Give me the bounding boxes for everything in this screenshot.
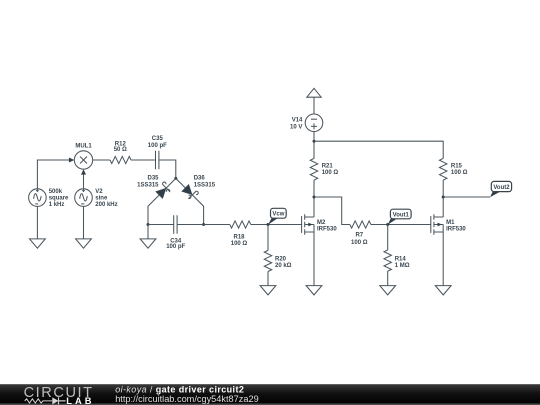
voltage source V14 [290, 114, 323, 132]
multiplier MUL1 [74, 144, 92, 170]
voltage source V2 sine [75, 189, 118, 208]
transistor M1 IRF530 [431, 214, 467, 235]
flag Vcw [268, 208, 286, 224]
node diode right [202, 223, 205, 226]
voltage source V1 500k square [29, 189, 69, 208]
resistor R18 [230, 221, 251, 247]
svg-text:R14: R14 [395, 256, 407, 262]
wire V2 to ground [83, 206, 85, 239]
wire R15 to M1 drain [442, 180, 444, 217]
svg-text:M1: M1 [446, 220, 455, 226]
svg-text:D36: D36 [194, 176, 206, 182]
ground [76, 239, 92, 248]
svg-text:1 MΩ: 1 MΩ [395, 263, 410, 269]
node V14 [313, 140, 316, 143]
svg-text:1SS315: 1SS315 [194, 183, 216, 189]
svg-text:1 kHz: 1 kHz [49, 202, 65, 208]
svg-text:50 Ω: 50 Ω [114, 147, 127, 153]
svg-text:oi-koya / gate driver circuit2: oi-koya / gate driver circuit2 [115, 385, 244, 395]
svg-text:square: square [49, 195, 69, 201]
wire C35 to apex node [159, 160, 176, 178]
wire drain node to R7 [314, 197, 350, 225]
wire node to Vout2 [443, 196, 490, 198]
flag Vout2 [490, 181, 512, 197]
svg-text:C35: C35 [152, 136, 164, 142]
node M2 drain [313, 196, 316, 199]
wire left node to C34 [148, 224, 174, 226]
node Vout1 [386, 223, 389, 226]
svg-text:100 Ω: 100 Ω [231, 241, 248, 247]
power VCC [307, 88, 321, 97]
wire R18 to M2 gate [251, 224, 302, 226]
wire R7 to M1 gate [371, 224, 431, 226]
svg-text:R7: R7 [355, 233, 363, 239]
svg-text:LAB: LAB [66, 396, 94, 405]
node M1 drain [442, 196, 445, 199]
resistor R15 [440, 158, 468, 180]
flag Vout1 [388, 209, 411, 225]
svg-text:Vcw: Vcw [272, 212, 284, 218]
ground [306, 286, 322, 295]
svg-text:R21: R21 [322, 163, 334, 169]
svg-text:http://circuitlab.com/cgy54kt8: http://circuitlab.com/cgy54kt87za29 [115, 394, 259, 404]
transistor M2 IRF530 [302, 214, 338, 235]
node diode left [147, 223, 150, 226]
wire M2 source to ground [313, 232, 315, 286]
svg-text:R20: R20 [275, 256, 287, 262]
svg-text:M2: M2 [317, 220, 326, 226]
svg-text:sine: sine [95, 195, 108, 201]
svg-text:V2: V2 [95, 189, 103, 195]
capacitor C35 [148, 136, 167, 169]
wire C34 to right node to R18 [177, 224, 230, 226]
svg-text:100 pF: 100 pF [166, 244, 185, 250]
wire M1 source to ground [442, 232, 444, 286]
svg-text:R15: R15 [451, 163, 463, 169]
svg-text:1SS315: 1SS315 [137, 182, 159, 188]
diode D36 1SS315 [176, 176, 216, 225]
ground [140, 239, 156, 248]
svg-text:IRF530: IRF530 [446, 227, 466, 233]
ground [435, 286, 451, 295]
ground [260, 286, 276, 295]
wire V2 to MUL1 [81, 169, 86, 189]
svg-text:100 pF: 100 pF [148, 143, 167, 149]
wire R20 to ground [267, 272, 269, 286]
wire V14 to power [313, 97, 315, 114]
footer logo CIRCUIT LAB [24, 385, 95, 405]
wire Vout1 node to R14 [387, 225, 389, 251]
svg-text:D35: D35 [147, 175, 159, 181]
svg-text:100 Ω: 100 Ω [351, 240, 368, 246]
wire left node to ground [147, 225, 149, 239]
resistor R14 [384, 250, 410, 271]
wire V1 to MUL1 [37, 158, 74, 189]
resistor R20 [264, 250, 291, 271]
svg-text:200 kHz: 200 kHz [95, 202, 117, 208]
svg-text:20 kΩ: 20 kΩ [275, 263, 292, 269]
svg-text:MUL1: MUL1 [75, 144, 92, 150]
ground [380, 286, 396, 295]
footer title text [115, 385, 259, 405]
svg-text:V14: V14 [292, 118, 303, 124]
svg-text:100 Ω: 100 Ω [322, 170, 339, 176]
wire R12 to C35 [131, 159, 156, 161]
resistor R21 [310, 158, 338, 180]
ground [30, 239, 46, 248]
wire M2 drain to R21 [313, 180, 315, 217]
diode D35 1SS315 [137, 175, 176, 224]
wire V14 node to R21 [313, 132, 315, 159]
wire V14 node to R15 [314, 141, 443, 158]
svg-text:IRF530: IRF530 [317, 227, 337, 233]
node apex [174, 177, 177, 180]
resistor R7 [350, 221, 371, 246]
svg-text:R18: R18 [233, 234, 245, 240]
svg-text:500k: 500k [49, 189, 63, 195]
capacitor C34 [166, 215, 185, 250]
svg-text:Vout2: Vout2 [493, 185, 510, 191]
wire R14 to ground [387, 271, 389, 286]
svg-text:10 V: 10 V [290, 124, 302, 130]
node Vcw [267, 223, 270, 226]
wire V1 to ground [36, 206, 38, 239]
footer bar [0, 384, 540, 405]
resistor R12 [110, 141, 131, 163]
svg-text:100 Ω: 100 Ω [451, 170, 468, 176]
svg-text:Vout1: Vout1 [393, 212, 410, 218]
wire MUL1 to R12 [93, 159, 110, 161]
wire Vcw node to R20 [267, 225, 269, 251]
